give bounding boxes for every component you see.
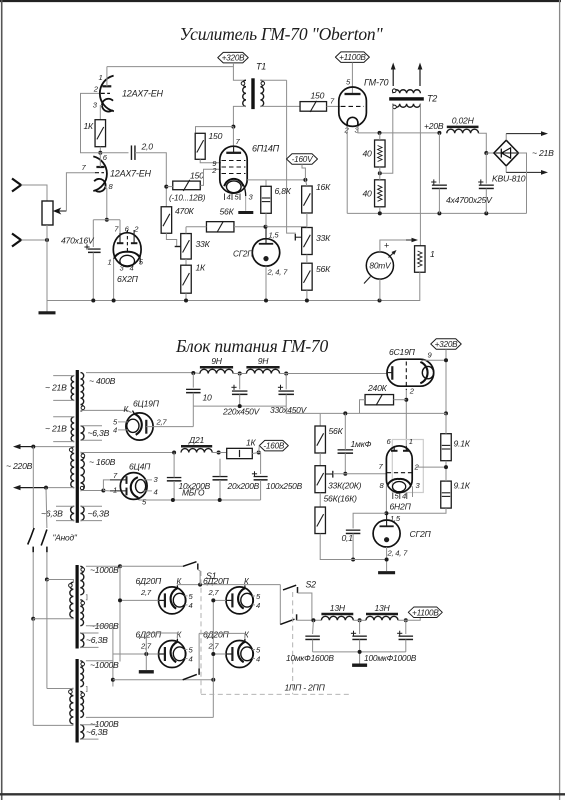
wire: lower switch feed	[113, 679, 213, 681]
flag +1100B (amplifier)	[335, 52, 369, 63]
wire: 100uF bottom lead	[260, 480, 262, 500]
T2 primary winding	[393, 90, 421, 93]
wire: 6X2P cathode pin1 to ground bus	[113, 259, 115, 301]
6Н2П grid (dashed)	[387, 472, 412, 474]
6Д20П D heater circle	[241, 647, 254, 661]
6С19П heater circle	[422, 366, 433, 378]
arrow: T2 primary lead up (left)	[392, 70, 394, 87]
6Х2П center shield (dashed)	[126, 230, 128, 253]
svg-text:4: 4	[256, 655, 260, 664]
junction: primary top / anode switch	[31, 445, 35, 449]
wire: pin 3 stub	[143, 479, 152, 481]
wire: tap to 6.8K	[265, 180, 267, 186]
6Д20П B cathode arc	[238, 588, 245, 608]
6Ц4П heater circle	[136, 480, 146, 493]
wire: 10uF bottom lead	[312, 640, 314, 652]
junction: 330uF cap top	[284, 372, 288, 376]
wire: between 13H chokes	[353, 619, 366, 621]
junction: 0,1 cap on common	[351, 558, 355, 562]
wire: T3 6,3B top stub	[80, 632, 98, 634]
wire: pin 7 lead	[110, 479, 127, 481]
6Н2П right plate	[403, 450, 410, 452]
page right border line	[559, 0, 561, 800]
svg-text:56К(16К): 56К(16К)	[324, 494, 358, 504]
svg-text:1мкФ: 1мкФ	[351, 439, 372, 449]
wire: 6Ts19P plate to filter negative	[146, 426, 193, 428]
svg-text:+1100В: +1100В	[339, 53, 366, 62]
svg-text:33К: 33К	[196, 239, 211, 249]
svg-text:33К: 33К	[316, 233, 331, 243]
wire: T4 sec3 top lead	[86, 660, 113, 662]
tube 6Д20П (D) envelope	[226, 641, 253, 668]
svg-text:+: +	[384, 241, 389, 251]
wire: filament pin3 to +20B node	[358, 126, 440, 132]
svg-text:~ 21В: ~ 21В	[45, 424, 67, 434]
33K trimmer tap bar	[175, 246, 181, 248]
junction: SG2P on common rail	[385, 558, 389, 562]
triode V1a 12AX7-EH (upper) envelope arc	[100, 76, 114, 112]
svg-text:1,5: 1,5	[390, 514, 401, 523]
resistor 56K (chain)	[302, 263, 313, 290]
S2 upper contact stub	[297, 587, 299, 593]
svg-text:6Д20П: 6Д20П	[136, 576, 163, 586]
svg-text:1: 1	[430, 249, 435, 259]
wire: 56K to 33K top	[186, 226, 207, 228]
wire: filament pin2 to bottom bus	[346, 134, 348, 214]
wire: mid cap top lead	[359, 620, 361, 634]
svg-text:150: 150	[209, 131, 223, 141]
junction: SG2P anode node	[264, 225, 268, 229]
wire: 150 to GM-70 grid	[327, 105, 342, 107]
svg-text:(-10...12В): (-10...12В)	[169, 194, 206, 203]
choke 9H (1)	[200, 366, 233, 369]
wire: D stub 5	[252, 649, 255, 651]
junction: grid network node	[164, 185, 168, 189]
wire: C stub 4	[185, 658, 188, 660]
svg-text:56К: 56К	[220, 207, 235, 217]
wire: ~6,3B r2 bottom stub	[81, 520, 103, 522]
svg-text:1: 1	[113, 486, 117, 495]
svg-text:~ 220В: ~ 220В	[6, 461, 33, 471]
svg-text:6С19П: 6С19П	[389, 347, 416, 357]
6П14П plate bar	[226, 152, 241, 154]
tube СГ2П (amplifier) envelope	[252, 239, 279, 266]
svg-text:2,0: 2,0	[141, 142, 154, 152]
6Ц19П cathode arc	[134, 414, 141, 435]
wire: filter negative rail	[193, 405, 286, 407]
triode V1a cathode arc	[102, 99, 113, 112]
svg-text:+1100В: +1100В	[412, 608, 439, 617]
wire: 6X2P right plate stub	[133, 230, 135, 243]
junction: sec1 top node	[118, 564, 122, 568]
svg-text:-160V: -160V	[292, 155, 315, 164]
meter 80mV body	[366, 252, 393, 279]
wire: V1a cathode to R 1K	[100, 106, 102, 120]
wire: v1 end	[119, 660, 121, 663]
capacitor 100uF (mid)	[352, 635, 367, 637]
wire: C cathode bus to ground branch	[146, 632, 177, 634]
wire: 100uF top lead	[405, 620, 407, 634]
T3 primary winding	[70, 582, 74, 618]
wire: input1 to volume pot	[21, 185, 47, 201]
arrow: mains lead (top)	[21, 446, 34, 448]
flag -160B	[259, 440, 288, 451]
wire: 150 to 6P14P control grid	[200, 169, 221, 185]
6П14П cathode arc	[224, 179, 243, 186]
wire: T4 6,3B bottom stub	[80, 738, 98, 740]
wire: 9.1K lower to SG2P node	[386, 508, 446, 513]
wire: 10uF top lead	[312, 620, 315, 634]
wire: HV vertical v1	[119, 566, 121, 661]
wire: 56K to 33K(20K)	[319, 453, 321, 466]
6Н2П heater circle	[393, 482, 406, 492]
wire: to T4 primary bottom	[33, 724, 73, 726]
svg-text:~6,3В: ~6,3В	[88, 428, 110, 438]
wire: A cathode up	[176, 584, 178, 587]
choke 13H (1)	[321, 613, 353, 616]
wire: 33K to 56K	[306, 255, 308, 264]
unused-triode grey box (6N2P)	[392, 440, 423, 493]
6Д20П C cathode arc	[171, 642, 178, 662]
wire: rail down to 56K	[319, 413, 321, 426]
svg-text:100х250В: 100х250В	[266, 481, 303, 491]
wire: MBGO bottom lead	[173, 481, 175, 500]
6С19П plate lead	[387, 372, 392, 374]
wire: +320B down to sense divider	[445, 349, 447, 413]
capacitor 10x200B MBGO	[167, 477, 182, 479]
tube 6Д20П (C) envelope	[159, 641, 186, 668]
wire: to pin 7	[103, 480, 110, 491]
svg-text:6Ц4П: 6Ц4П	[129, 462, 151, 472]
ГМ-70 plate bar	[345, 93, 361, 95]
junction: cathode network	[105, 218, 109, 222]
6П14П cathode lead to pin 3	[243, 185, 245, 197]
wire: 240K right to grid	[394, 399, 407, 401]
svg-text:6Н2П: 6Н2П	[390, 502, 412, 512]
wire: T1 secondary bottom to GM-70 grid resistor	[260, 105, 300, 107]
svg-text:6Х2П: 6Х2П	[117, 274, 139, 284]
svg-text:ГМ-70: ГМ-70	[364, 78, 389, 88]
svg-text:13Н: 13Н	[374, 603, 390, 613]
svg-text:4: 4	[402, 492, 406, 501]
svg-text:4: 4	[189, 601, 193, 610]
6П14П plate lead	[233, 146, 235, 153]
inductor 0,02H	[447, 126, 479, 129]
СГ2П (PSU) anode bar	[380, 525, 394, 527]
wire: T3 6,3B bottom stub	[80, 646, 98, 648]
svg-text:150: 150	[311, 91, 325, 101]
wire: 56K to SG2P node	[234, 226, 266, 228]
СГ2П (PSU) cathode dot	[384, 537, 389, 542]
wire: ~400B top to filter	[86, 372, 193, 374]
page bottom border line	[0, 793, 565, 795]
wire: node A to V1a grid (SRPP loop)	[81, 93, 101, 152]
T3 winding ~1000B (1)	[80, 566, 84, 594]
resistor 1K (bias divider)	[181, 265, 192, 293]
6Д20П C plate bar	[164, 647, 166, 661]
svg-text:~ 400В: ~ 400В	[89, 376, 116, 386]
wire: 16K to 33K	[306, 213, 308, 228]
wire: D plate to v3	[213, 653, 226, 655]
wire: primary top lead	[33, 446, 74, 448]
svg-text:Д21: Д21	[188, 435, 204, 445]
wire: 20uF bottom lead	[219, 480, 221, 500]
6Х2П right plate	[131, 242, 138, 244]
wire: SG2P anode lead	[386, 513, 388, 526]
T-main winding ~21B (2)	[71, 417, 74, 442]
ground (regulator)	[378, 571, 395, 574]
wire: 33K(20K) to 56K(16K)	[319, 493, 321, 507]
junction: C plate / ground branch	[144, 652, 148, 656]
6Д20П B heater circle	[241, 593, 254, 607]
wire: to cap 10	[192, 373, 194, 388]
junction: plates tie	[101, 489, 105, 493]
wire: T2 secondary left to 40-ohm midpoint	[380, 104, 393, 174]
wire: 470K to 33K trimmer tap	[166, 233, 176, 246]
svg-text:-160В: -160В	[263, 442, 285, 451]
svg-text:~6,3В: ~6,3В	[88, 509, 110, 519]
svg-text:33К(20К): 33К(20К)	[328, 481, 362, 491]
6Х2П cathode leads	[113, 258, 116, 259]
junction: SG2P on bus	[264, 299, 268, 303]
wire: T4 sec4 bottom lead to HV vertical v3	[86, 716, 213, 718]
wire: ~21B(2) bottom stub	[53, 441, 74, 443]
tube 6С19П envelope	[387, 359, 434, 386]
wire: pot bottom to ground bus	[46, 225, 48, 301]
wire: choke to 6S19P plate	[280, 373, 387, 375]
svg-text:470К: 470К	[175, 206, 195, 216]
wire: +320 to 9.1K upper	[445, 413, 447, 433]
junction: 40 lower on bus	[378, 211, 382, 215]
svg-text:6,8К: 6,8К	[275, 186, 292, 196]
svg-text:10: 10	[203, 393, 213, 403]
wire: pin 5 to rail	[137, 499, 139, 501]
wire: S2 to 13H-1	[297, 619, 322, 621]
wire: 1K out	[252, 453, 260, 454]
junction: D plate on v3	[211, 652, 215, 656]
svg-text:20х200В: 20х200В	[227, 481, 260, 491]
wire: ~6,3B left bottom stub	[56, 520, 74, 522]
anode switch 2 contact stub	[46, 547, 48, 553]
svg-text:6Д20П: 6Д20П	[203, 630, 230, 640]
svg-text:6Ц19П: 6Ц19П	[133, 399, 160, 409]
6Д20П A plate bar	[164, 593, 166, 607]
transformer T1 primary winding	[243, 80, 246, 106]
svg-text:2,7: 2,7	[156, 418, 168, 427]
wire: node to 16K top	[305, 180, 307, 186]
svg-text:56К: 56К	[329, 426, 344, 436]
wire: 0,1 cap to common	[352, 534, 354, 560]
wire: amplifier ground bus	[47, 300, 420, 302]
svg-text:1К: 1К	[84, 121, 95, 131]
junction: 10uF cap top	[311, 618, 315, 622]
wire: 100uF bottom lead	[405, 640, 407, 652]
arrow: T2 primary lead up (right)	[419, 70, 421, 87]
capacitor 2,0 coupling	[130, 145, 132, 160]
wire: filament return bus	[347, 212, 526, 214]
KBU-810 internal diode	[496, 152, 518, 154]
wire: HV filter common	[313, 651, 406, 653]
page top border line	[0, 0, 561, 2]
wire: D cathode to S1 lower	[198, 633, 200, 668]
capacitor 4x4700x25V (1)	[432, 184, 447, 186]
svg-text:2, 4, 7: 2, 4, 7	[387, 549, 409, 558]
capacitor 330x450V	[278, 390, 294, 392]
6Х2П left plate	[117, 242, 124, 244]
resistor 150 (6P14P grid stopper)	[173, 181, 201, 190]
capacitor 4x4700x25V (2)	[479, 184, 494, 186]
6П14П grid 3 (dashed)	[222, 160, 246, 162]
wire: 40 upper to filament bus	[379, 133, 381, 140]
wire: 0.02H to bridge	[479, 133, 487, 153]
wire: cathode 3 stub	[411, 486, 412, 498]
wire: ~160B bottom to 6Ts4P	[81, 490, 104, 492]
resistor 56K (horizontal)	[206, 222, 234, 232]
resistor 470K	[161, 207, 172, 234]
svg-text:1К: 1К	[246, 438, 257, 448]
wire: ~21B(2) top stub	[53, 416, 74, 418]
linkage dashed horizontal 1PP-2PP	[201, 693, 352, 695]
triode V1b cathode arc	[94, 179, 105, 192]
svg-text:10мкФ1600В: 10мкФ1600В	[286, 653, 334, 663]
wire: ~6,3B r2 top stub	[81, 505, 103, 507]
svg-text:12AX7-EH: 12AX7-EH	[110, 169, 151, 179]
wire: bridge top vertex up	[505, 134, 507, 141]
svg-text:~6,3В: ~6,3В	[86, 635, 108, 645]
СГ2П cathode dot	[263, 256, 268, 261]
wire: to -160B flag	[258, 446, 261, 453]
T-main winding ~160B	[81, 453, 85, 491]
svg-text:Усилитель ГМ-70 "Oberton": Усилитель ГМ-70 "Oberton"	[179, 24, 383, 44]
svg-text:9.1К: 9.1К	[454, 439, 471, 449]
trimmer 33K(20K)	[315, 466, 326, 493]
wire: +20B node to cap1	[438, 133, 440, 184]
wire: sec2 bottom lead	[86, 625, 113, 627]
junction: -160B node	[257, 451, 261, 455]
tube 6Ц19П envelope	[126, 413, 153, 440]
anode switch blade 1	[28, 528, 34, 545]
capacitor 10uF1600B	[305, 635, 320, 637]
capacitor 470x16V	[88, 248, 101, 250]
wire: heater stub 5	[118, 421, 128, 423]
6Ц4П plate bar (lower)	[126, 488, 128, 496]
wire: +320B rail to T1 primary	[233, 67, 246, 81]
ground (6P14P cathode)	[238, 211, 253, 214]
junction: 6S19P cathode on +320B	[444, 358, 448, 362]
triode V1a grid (dashed)	[101, 92, 110, 94]
triode V1a plate	[102, 85, 111, 87]
transformer T2 core	[389, 97, 424, 100]
wire: cap1 to bus	[438, 189, 440, 214]
6Ц19П plate bar	[145, 420, 147, 434]
svg-text:1: 1	[99, 73, 103, 82]
svg-text:240К: 240К	[367, 383, 388, 393]
junction: bridge AC / cap	[484, 151, 488, 155]
6Ц4П cathode arc	[131, 477, 139, 499]
junction: 40-ohm divider top	[378, 131, 382, 135]
wire: 9.1K upper to lower	[445, 461, 447, 481]
arrow: mains lead (bottom)	[21, 487, 47, 489]
page left border line	[1, 0, 3, 800]
wire: node to 100x250B cap	[260, 453, 262, 475]
resistor 56K(16K)	[315, 507, 326, 534]
svg-text:СГ2П: СГ2П	[410, 529, 432, 539]
svg-text:2,7: 2,7	[140, 588, 152, 597]
junction: mid caps top	[358, 618, 362, 622]
wire: SG2P cathode to ground bus	[265, 266, 267, 300]
svg-text:KBU-810: KBU-810	[492, 174, 526, 184]
6С19П cathode arc	[420, 362, 427, 383]
wire: plate node to screen resistor 150	[196, 127, 234, 133]
T4 winding ~1000B (2)	[80, 692, 83, 718]
svg-text:4: 4	[113, 426, 117, 435]
wire: 6X2P left plate lead	[119, 233, 121, 243]
wire: HV vertical v3 (B/D plates)	[212, 600, 214, 717]
wire: 6S19P cathode to +320B	[420, 360, 446, 362]
6П14П grid 1 control (dashed)	[222, 173, 246, 175]
33K(20K) tap bar	[332, 471, 334, 478]
resistor 150 (6P14P screen)	[195, 133, 205, 159]
svg-text:9Н: 9Н	[211, 356, 223, 366]
ground (amplifier)	[39, 311, 56, 314]
svg-text:СГ2П: СГ2П	[233, 250, 253, 259]
S2 mechanical link (dashed)	[292, 592, 294, 694]
wire: V1a plate lead	[106, 67, 108, 87]
svg-text:+20В: +20В	[424, 121, 444, 131]
flag +320B (amplifier)	[218, 52, 249, 63]
wire: bridge bottom vertex down	[505, 166, 507, 173]
svg-text:16К: 16К	[316, 182, 331, 192]
flag +320B (PSU)	[431, 339, 462, 350]
tube ГМ-70 envelope	[339, 87, 367, 126]
6Д20П B plate lead	[226, 599, 232, 601]
wire: sec3-sec4 series link	[86, 687, 87, 692]
wire: SG2P cathode to ground	[386, 547, 388, 571]
svg-text:4: 4	[227, 193, 231, 202]
wire: ~6,3B r1 bottom stub	[81, 439, 103, 441]
6Н2П cathode arcs	[387, 479, 411, 486]
junction: -160V node	[303, 178, 307, 182]
potentiometer (volume)	[42, 201, 53, 225]
wire: T3 sec1 top lead	[86, 565, 120, 567]
wire: V1b plate lead to node A	[99, 153, 101, 167]
svg-text:S2: S2	[306, 580, 317, 590]
wire: sec1-sec2 series link	[86, 595, 87, 600]
wire: ~400B bottom to 6Ts19P cathode	[81, 410, 132, 412]
svg-text:470x16V: 470x16V	[61, 236, 95, 246]
wire: pot wiper to V1b grid	[66, 173, 95, 211]
svg-text:100мкФ1000В: 100мкФ1000В	[364, 653, 417, 663]
junction: 240K / grid	[404, 398, 408, 402]
svg-text:80mV: 80mV	[369, 261, 392, 271]
6Д20П D plate bar	[231, 647, 233, 661]
anode switch 1 contact stub	[32, 547, 34, 553]
wire: 40 lower to bottom bus	[379, 207, 381, 214]
T-main winding ~6,3B (r1)	[81, 426, 85, 440]
transformer T-main core	[76, 370, 79, 523]
6Д20П A plate lead	[159, 599, 165, 601]
svg-text:9.1К: 9.1К	[454, 481, 471, 491]
junction: cap2 on bus	[484, 211, 488, 215]
wire: mains bottom to anode switch 2	[45, 488, 48, 528]
wire: sec3 top to v2 node	[112, 680, 114, 687]
T2 secondary winding	[393, 104, 421, 107]
wire: node to 0,1 cap	[353, 513, 386, 528]
6Х2П cathode arcs	[114, 252, 140, 258]
wire: node to 150 grid resistor	[166, 186, 172, 188]
T-main winding ~21B (1)	[71, 376, 74, 401]
tube 6П14П envelope	[220, 146, 247, 193]
